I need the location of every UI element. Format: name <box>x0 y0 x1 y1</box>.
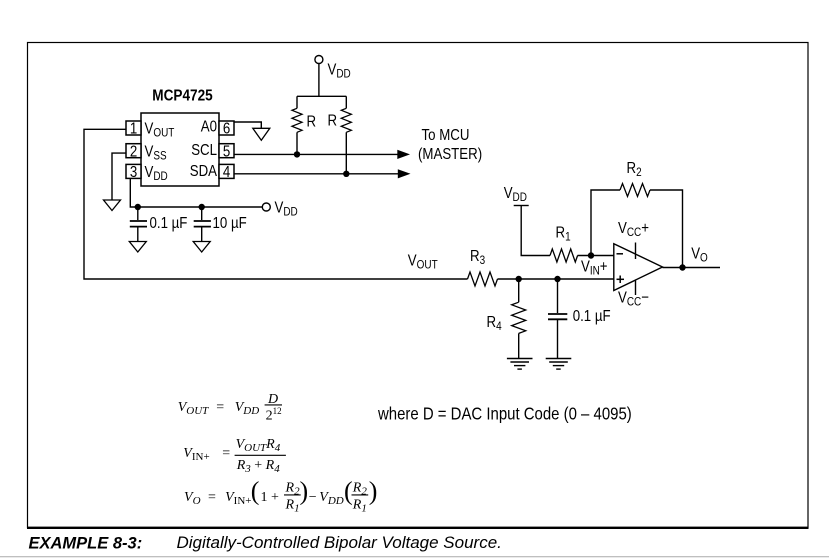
svg-text:Digitally-Controlled Bipolar V: Digitally-Controlled Bipolar Voltage Sou… <box>177 533 502 552</box>
svg-text:−: − <box>309 490 317 505</box>
svg-text:SDA: SDA <box>190 163 217 180</box>
ground symbol VSS <box>104 200 121 211</box>
capacitor C3 0.1uF wire top <box>557 279 559 313</box>
terminal VDD pullup <box>315 56 323 64</box>
svg-text:where D = DAC Input Code (0 –: where D = DAC Input Code (0 – 4095) <box>377 403 632 424</box>
IC U1 MCP4725 body <box>141 113 219 186</box>
label R3 <box>470 248 485 268</box>
pin 2 <box>126 143 141 160</box>
svg-text:R: R <box>307 113 317 130</box>
label VOUT node <box>408 252 438 272</box>
resistor R pullup SDA wire top <box>345 96 347 108</box>
svg-text:R1: R1 <box>556 224 571 244</box>
op-amp U2 triangle <box>614 244 663 291</box>
pin label A0 <box>201 118 217 135</box>
resistor R4 body <box>512 302 526 333</box>
node junction bypass C2 <box>199 204 205 210</box>
pin 4 <box>219 164 234 181</box>
wire output VO <box>663 267 721 269</box>
equation 2 fraction bar <box>235 454 286 456</box>
svg-text:(: ( <box>344 477 353 506</box>
svg-text:To MCU: To MCU <box>422 127 470 144</box>
node junction R4 tap <box>516 276 522 282</box>
wire pin1 VOUT to left rail and down to bottom VOUT line <box>84 129 468 279</box>
label MCP4725 <box>152 88 212 105</box>
node junction C3 tap <box>554 276 560 282</box>
wire pin3 VDD down to bypass rail <box>130 179 262 208</box>
ground symbol A0 <box>253 128 270 140</box>
svg-text:(: ( <box>251 477 260 506</box>
wire pullup tee bar <box>297 95 346 97</box>
svg-text:VOUTR4: VOUTR4 <box>236 437 281 454</box>
svg-text:R3: R3 <box>470 248 485 268</box>
node junction SDA pullup <box>343 171 349 177</box>
pin label SCL <box>191 142 217 159</box>
capacitor C1 0.1uF plates <box>130 221 147 227</box>
svg-text:VIN+: VIN+ <box>581 258 608 278</box>
svg-text:0.1 µF: 0.1 µF <box>150 215 188 232</box>
ground symbol C3 earth <box>546 359 572 370</box>
pin label VDD <box>145 164 168 184</box>
label VDD opamp <box>504 185 527 205</box>
svg-text:4: 4 <box>223 164 230 181</box>
resistor R2 body <box>620 184 650 197</box>
svg-text:VOUT: VOUT <box>178 400 209 417</box>
svg-text:0.1 µF: 0.1 µF <box>573 308 611 325</box>
svg-text:=: = <box>208 490 216 505</box>
wire R2 to output node <box>650 190 683 268</box>
label VO <box>691 245 708 265</box>
svg-text:MCP4725: MCP4725 <box>152 88 212 105</box>
svg-text:R1: R1 <box>285 498 300 515</box>
svg-text:VDD: VDD <box>328 61 351 81</box>
node junction output <box>679 264 685 270</box>
pin VCC+ stub <box>635 243 637 260</box>
capacitor C3 wire bottom <box>557 320 559 359</box>
node junction bypass C1 <box>135 204 141 210</box>
resistor R pullup SDA body <box>341 108 351 132</box>
svg-text:VIN+: VIN+ <box>183 446 209 463</box>
resistor R pullup SCL wire top <box>296 96 298 108</box>
resistor R1 body <box>550 249 578 262</box>
svg-text:212: 212 <box>266 406 282 424</box>
capacitor C2 10uF wire top <box>201 207 203 220</box>
capacitor C1 wire bottom <box>137 227 139 242</box>
svg-text:): ) <box>369 477 378 506</box>
wire pin2 VSS to ground <box>112 153 126 200</box>
value label 10 uF <box>213 215 247 232</box>
svg-text:SCL: SCL <box>191 142 217 159</box>
svg-text:5: 5 <box>223 143 230 160</box>
wire R3 to opamp plus input <box>498 278 614 280</box>
svg-text:EXAMPLE 8-3:: EXAMPLE 8-3: <box>29 535 143 553</box>
capacitor C2 10uF plates <box>194 221 211 227</box>
label R right <box>328 112 338 129</box>
svg-text:=: = <box>216 400 224 415</box>
svg-text:R4: R4 <box>487 314 502 334</box>
resistor R pullup SDA wire bottom <box>345 132 347 174</box>
pin 1 <box>126 120 141 137</box>
capacitor C1 0.1uF wire top <box>137 207 139 220</box>
ground symbol C1 <box>129 242 146 253</box>
svg-text:A0: A0 <box>201 118 217 135</box>
label VCC+ <box>618 220 649 240</box>
svg-text:1: 1 <box>130 120 137 137</box>
resistor R pullup SCL body <box>292 108 302 132</box>
label R left <box>307 113 317 130</box>
equation 2 VIN+ = VOUT R4 / (R3+R4) <box>183 437 280 475</box>
svg-text:2: 2 <box>130 143 137 160</box>
svg-text:10 µF: 10 µF <box>213 215 247 232</box>
ground symbol R4 earth <box>507 359 533 370</box>
label R2 <box>627 160 642 180</box>
page rule <box>0 556 829 558</box>
label VDD bypass rail <box>275 199 298 219</box>
svg-text:VOUT: VOUT <box>408 252 438 272</box>
svg-text:R2: R2 <box>627 160 642 180</box>
terminal VDD bypass rail <box>262 203 270 211</box>
note where D = DAC Input Code <box>377 403 632 424</box>
pin VCC- stub <box>635 281 637 296</box>
ground symbol C2 <box>193 242 210 253</box>
op-amp plus sign <box>617 276 625 284</box>
pin label VOUT <box>145 120 175 140</box>
equation 3 fraction bars <box>284 494 368 496</box>
resistor R3 body <box>468 272 498 286</box>
svg-text:R3 + R4: R3 + R4 <box>236 458 281 475</box>
equation 1 fraction bar <box>265 404 282 406</box>
svg-text:(MASTER): (MASTER) <box>418 146 482 163</box>
capacitor C3 0.1uF plates <box>548 314 567 319</box>
pin label VSS <box>145 143 167 163</box>
svg-text:6: 6 <box>223 120 230 137</box>
label VIN+ <box>581 258 608 278</box>
svg-text:R1: R1 <box>352 498 367 515</box>
svg-text:VO: VO <box>691 245 708 265</box>
resistor R4 wire top <box>518 279 520 302</box>
label (MASTER) <box>418 146 482 163</box>
svg-text:VIN+: VIN+ <box>225 490 251 507</box>
label To MCU <box>422 127 470 144</box>
node junction feedback VIN+ <box>588 252 594 258</box>
wire SCL line <box>234 153 398 155</box>
arrow SCL to MCU <box>397 150 410 159</box>
svg-text:VO: VO <box>184 490 201 507</box>
svg-text:VDD: VDD <box>235 400 260 417</box>
svg-text:VDD: VDD <box>275 199 298 219</box>
label R1 <box>556 224 571 244</box>
node junction SCL pullup <box>294 151 300 157</box>
svg-text:=: = <box>222 446 230 461</box>
value label 0.1 uF <box>150 215 188 232</box>
svg-text:): ) <box>300 477 309 506</box>
wire R1 to opamp minus input <box>578 255 614 257</box>
equation 3 VO = VIN+(1+R2/R1) - VDD(R2/R1) <box>184 477 377 515</box>
pin 5 <box>219 143 234 160</box>
value label 0.1 uF right <box>573 308 611 325</box>
svg-text:VDD: VDD <box>319 490 344 507</box>
svg-text:1 +: 1 + <box>261 490 280 505</box>
pin 3 <box>126 164 141 181</box>
supply VDD opamp tee <box>514 206 550 256</box>
pin 6 <box>219 120 234 137</box>
resistor R4 wire bottom <box>518 333 520 358</box>
wire pin6 A0 to ground <box>234 122 261 128</box>
resistor R pullup SCL wire bottom <box>296 132 298 154</box>
equation 1 VOUT = VDD D/2^12 <box>178 392 282 424</box>
svg-text:VCC+: VCC+ <box>618 220 649 240</box>
label VCC- <box>618 289 649 309</box>
wire VDD pullup stem <box>318 64 320 97</box>
svg-text:VCC−: VCC− <box>618 289 649 309</box>
wire SDA line <box>234 173 399 175</box>
label R4 <box>487 314 502 334</box>
svg-text:VDD: VDD <box>504 185 527 205</box>
capacitor C2 wire bottom <box>201 227 203 242</box>
op-amp minus sign <box>617 253 624 255</box>
arrow SDA to MCU <box>398 169 411 178</box>
svg-text:R: R <box>328 112 338 129</box>
label VDD pullup <box>328 61 351 81</box>
pin label SDA <box>190 163 217 180</box>
wire feedback loop <box>591 190 620 256</box>
